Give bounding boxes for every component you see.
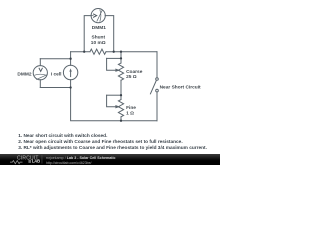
wire DMM2 bottom stub (39, 80, 41, 88)
ammeter DMM1 (91, 9, 105, 23)
wire right branch top (120, 52, 122, 63)
svg-text:LAB: LAB (32, 158, 40, 163)
svg-text:25 Ω: 25 Ω (126, 74, 137, 80)
node cell bottom rail (69, 86, 71, 88)
node fine wiper tap (120, 94, 122, 96)
wire main node with shunt, left segment (71, 51, 90, 53)
wire fine bottom lead (120, 117, 122, 121)
wire bottom rail of cell section (40, 87, 70, 89)
svg-text:10 mΩ: 10 mΩ (91, 40, 106, 46)
wire DMM1 loop right lead (105, 16, 114, 52)
wire left drop to cell section (70, 52, 72, 59)
resistor Coarse 25 Ohm rheostat (107, 58, 124, 80)
svg-text:DMM2: DMM2 (17, 72, 31, 78)
wire DMM1 loop left lead (84, 16, 91, 52)
wire bottom return right (121, 120, 157, 122)
wire main node, right segment (106, 51, 157, 53)
svg-text:1. Near short circuit with swi: 1. Near short circuit with switch closed… (18, 133, 107, 139)
resistor Shunt 10 mOhm (90, 49, 106, 54)
wire left return down (71, 88, 121, 121)
wire I cell top stub (70, 59, 72, 66)
CircuitLab logo (8, 154, 48, 165)
node cell top rail (69, 58, 71, 60)
wire DMM2 top stub (39, 59, 41, 66)
junction node dots (69, 51, 122, 122)
node coarse wiper tap (120, 57, 122, 59)
svg-text:3. RL* with adjustments to Coa: 3. RL* with adjustments to Coarse and Fi… (18, 145, 207, 151)
svg-text:1 Ω: 1 Ω (126, 110, 134, 116)
svg-text:Fine: Fine (126, 105, 136, 111)
footer watermark bar (0, 154, 220, 166)
svg-text:DMM1: DMM1 (92, 25, 106, 31)
wire switch branch bottom lead (156, 92, 158, 121)
svg-text:I cell: I cell (51, 72, 62, 78)
footer title (46, 157, 116, 161)
svg-text:Near Short Circuit: Near Short Circuit (160, 85, 201, 91)
current source I cell (63, 65, 77, 79)
switch SW1 Near Short Circuit (150, 78, 158, 94)
node main-DMM1 left (83, 51, 85, 53)
wire top rail of cell section (40, 58, 70, 60)
svg-text:2. Near open circuit with Coar: 2. Near open circuit with Coarse and Fin… (18, 139, 182, 145)
wire switch branch top lead (156, 52, 158, 78)
resistor Fine 1 Ohm rheostat (107, 95, 124, 117)
voltmeter DMM2 (33, 66, 47, 80)
footer url (46, 162, 92, 166)
node main-DMM1 right (113, 51, 115, 53)
wire between rheostats (120, 80, 122, 99)
node main-coarse branch (120, 51, 122, 53)
node bottom fine junction (120, 120, 122, 122)
wire I cell bottom stub (70, 80, 72, 88)
svg-text:Coarse: Coarse (126, 69, 143, 75)
svg-text:Shunt: Shunt (92, 34, 106, 40)
